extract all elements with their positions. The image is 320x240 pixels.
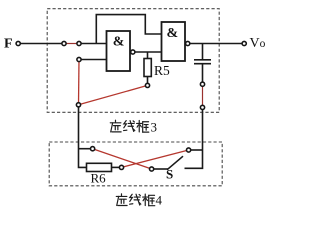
svg-text:S: S <box>166 167 173 182</box>
svg-text:4: 4 <box>156 193 163 208</box>
svg-text:3: 3 <box>151 120 158 135</box>
svg-text:R6: R6 <box>91 171 107 186</box>
svg-text:F: F <box>4 37 13 52</box>
svg-text:&: & <box>167 26 179 41</box>
svg-text:R5: R5 <box>154 63 170 78</box>
svg-text:Vo: Vo <box>250 36 266 51</box>
svg-text:&: & <box>113 34 125 49</box>
